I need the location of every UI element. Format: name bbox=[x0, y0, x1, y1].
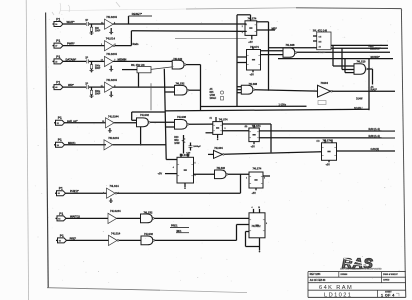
svg-text:P1: P1 bbox=[56, 81, 60, 85]
svg-text:74LS74: 74LS74 bbox=[252, 125, 261, 128]
svg-text:74LS32: 74LS32 bbox=[144, 232, 154, 236]
svg-text:P1: P1 bbox=[58, 138, 62, 142]
svg-text:MCWR*: MCWR* bbox=[371, 55, 380, 59]
svg-text:+5V: +5V bbox=[251, 145, 256, 148]
svg-text:74LS08: 74LS08 bbox=[177, 115, 187, 119]
svg-text:74LS14: 74LS14 bbox=[110, 184, 120, 188]
svg-text:P1: P1 bbox=[56, 17, 60, 21]
svg-text:R13: R13 bbox=[174, 137, 179, 139]
svg-text:PHI(1)*: PHI(1)* bbox=[70, 189, 80, 193]
svg-text:+5V: +5V bbox=[252, 192, 257, 195]
svg-text:MEMRW*: MEMRW* bbox=[370, 48, 381, 51]
svg-text:74LS10: 74LS10 bbox=[357, 60, 367, 64]
svg-text:4: 4 bbox=[252, 206, 253, 209]
svg-text:74LS74: 74LS74 bbox=[219, 118, 228, 121]
svg-text:RAS*: RAS* bbox=[371, 87, 377, 91]
svg-text:1000pF: 1000pF bbox=[193, 146, 201, 148]
svg-text:74S140: 74S140 bbox=[318, 51, 326, 54]
svg-text:9: 9 bbox=[195, 175, 196, 177]
svg-text:(4): (4) bbox=[210, 117, 213, 120]
svg-text:1 OF 4: 1 OF 4 bbox=[381, 293, 395, 297]
svg-text:(A): (A) bbox=[317, 140, 320, 143]
svg-text:pull_up*: pull_up* bbox=[67, 119, 78, 123]
svg-text:6: 6 bbox=[266, 223, 267, 225]
svg-text:5: 5 bbox=[225, 128, 226, 130]
svg-text:100P: 100P bbox=[95, 31, 101, 33]
svg-text:1: 1 bbox=[246, 178, 247, 180]
svg-text:68Ω: 68Ω bbox=[174, 140, 179, 142]
svg-text:D14W: D14W bbox=[356, 98, 363, 101]
svg-text:74LS244: 74LS244 bbox=[106, 78, 117, 82]
svg-text:74S04: 74S04 bbox=[321, 81, 329, 85]
svg-text:2: 2 bbox=[242, 26, 243, 28]
svg-text:RaIn: RaIn bbox=[133, 42, 139, 46]
svg-text:64K RAM: 64K RAM bbox=[319, 285, 353, 291]
svg-text:1P: 1P bbox=[85, 82, 88, 85]
svg-text:74LS74: 74LS74 bbox=[250, 46, 259, 49]
svg-text:74LS244: 74LS244 bbox=[108, 136, 119, 140]
svg-text:P1: P1 bbox=[56, 39, 60, 43]
svg-text:1P: 1P bbox=[85, 19, 88, 22]
svg-text:MR*: MR* bbox=[272, 26, 278, 30]
svg-text:P1: P1 bbox=[58, 116, 62, 120]
svg-text:5: 5 bbox=[264, 178, 265, 180]
svg-text:MR(1): MR(1) bbox=[68, 141, 75, 145]
svg-text:DRWN: DRWN bbox=[341, 274, 348, 276]
svg-text:P1: P1 bbox=[60, 234, 64, 238]
svg-text:+5V: +5V bbox=[250, 74, 255, 77]
svg-text:+5V: +5V bbox=[248, 41, 253, 44]
svg-text:DATAIN*: DATAIN* bbox=[66, 57, 78, 61]
svg-text:74LS244: 74LS244 bbox=[106, 15, 117, 19]
svg-text:74LS08: 74LS08 bbox=[286, 43, 296, 47]
svg-text:74LS244: 74LS244 bbox=[110, 209, 121, 213]
svg-text:PRE*: PRE* bbox=[70, 237, 77, 241]
svg-text:P1: P1 bbox=[59, 212, 63, 216]
svg-text:WAIT*: WAIT* bbox=[67, 20, 76, 24]
svg-text:P1: P1 bbox=[59, 187, 63, 191]
svg-text:74LS74: 74LS74 bbox=[323, 140, 332, 143]
svg-text:1/4W: 1/4W bbox=[174, 142, 180, 145]
svg-text:PWR*: PWR* bbox=[67, 42, 75, 46]
svg-text:RA8 (1-4): RA8 (1-4) bbox=[369, 134, 380, 138]
svg-text:CAS(1): CAS(1) bbox=[371, 147, 380, 151]
svg-text:100P: 100P bbox=[95, 68, 101, 70]
svg-text:(B): (B) bbox=[245, 126, 248, 128]
svg-text:MEMIN: MEMIN bbox=[118, 57, 127, 61]
svg-text:74LS14: 74LS14 bbox=[111, 232, 121, 236]
svg-text:5: 5 bbox=[195, 163, 196, 165]
svg-text:WR*: WR* bbox=[68, 83, 75, 87]
svg-text:100P: 100P bbox=[95, 94, 101, 96]
svg-text:74LS244: 74LS244 bbox=[108, 115, 119, 119]
svg-text:PRD1: PRD1 bbox=[171, 224, 178, 227]
svg-text:SCAN /: SCAN / bbox=[354, 107, 363, 110]
svg-text:RA0 (1-4): RA0 (1-4) bbox=[369, 127, 380, 131]
svg-text:WAIT(1): WAIT(1) bbox=[70, 214, 80, 218]
svg-text:1P: 1P bbox=[85, 57, 88, 60]
svg-text:REV 1234: REV 1234 bbox=[310, 273, 321, 276]
svg-text:1/4W: 1/4W bbox=[210, 94, 216, 97]
svg-text:74LS244: 74LS244 bbox=[106, 52, 117, 56]
svg-text:100uF: 100uF bbox=[210, 98, 217, 100]
svg-text:74LS74: 74LS74 bbox=[248, 17, 257, 20]
svg-text:74LS74: 74LS74 bbox=[253, 168, 262, 171]
svg-text:CHKD: CHKD bbox=[383, 280, 390, 282]
svg-text:DWG # W3137: DWG # W3137 bbox=[383, 274, 398, 276]
svg-text:RESET*: RESET* bbox=[132, 12, 143, 16]
svg-text:1-130s: 1-130s bbox=[279, 104, 287, 107]
svg-text:74LS112: 74LS112 bbox=[252, 225, 262, 228]
svg-text:74LS02: 74LS02 bbox=[140, 113, 150, 117]
svg-text:16: 16 bbox=[258, 207, 260, 209]
svg-text:3: 3 bbox=[242, 32, 243, 34]
svg-text:+5V: +5V bbox=[326, 163, 331, 166]
svg-text:LD1021: LD1021 bbox=[324, 292, 352, 298]
svg-text:74LS04: 74LS04 bbox=[214, 147, 223, 150]
svg-text:P1: P1 bbox=[56, 55, 60, 59]
svg-text:+5V: +5V bbox=[158, 172, 163, 176]
svg-text:AS OF FEB 83: AS OF FEB 83 bbox=[310, 279, 326, 282]
svg-text:74LS14: 74LS14 bbox=[106, 36, 116, 40]
